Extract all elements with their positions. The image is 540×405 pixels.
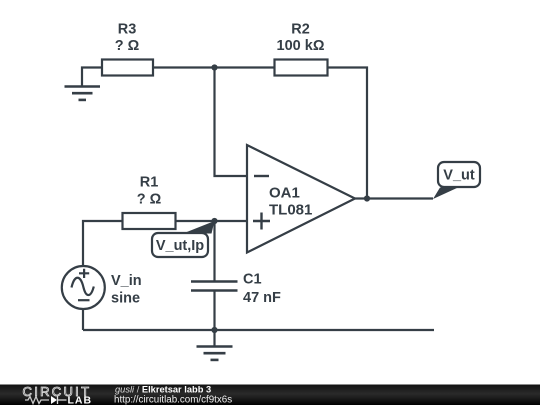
svg-text:? Ω: ? Ω xyxy=(115,38,140,54)
wire R1 right lead to node B xyxy=(176,220,215,222)
wire V_in bottom to bottom net xyxy=(82,309,84,331)
svg-text:V_ut: V_ut xyxy=(443,168,475,184)
footer title text xyxy=(114,384,232,405)
wire node A down to op-amp inverting input xyxy=(215,68,248,177)
svg-text:R2: R2 xyxy=(291,22,310,38)
flag V_ut xyxy=(433,162,480,199)
op-amp U1 OA1 TL081 xyxy=(247,145,355,253)
svg-text:sine: sine xyxy=(111,291,140,307)
svg-text:http://circuitlab.com/cf9tx6s: http://circuitlab.com/cf9tx6s xyxy=(114,394,232,405)
CircuitLab logo xyxy=(23,384,93,405)
svg-text:47 nF: 47 nF xyxy=(243,290,281,306)
svg-text:LAB: LAB xyxy=(68,395,93,405)
svg-text:R3: R3 xyxy=(118,22,137,38)
resistor R2 xyxy=(275,22,328,76)
footer bar xyxy=(0,385,540,405)
svg-text:gusli / Elkretsar labb 3: gusli / Elkretsar labb 3 xyxy=(115,384,211,394)
svg-text:TL081: TL081 xyxy=(269,202,312,219)
wire R3 left lead and stub to ground xyxy=(82,68,102,87)
svg-text:V_in: V_in xyxy=(111,273,142,289)
ground (bottom) xyxy=(197,347,233,360)
wire R1 left lead down to V_in top xyxy=(83,221,123,266)
voltage source V_in (sine) xyxy=(62,266,142,309)
node B junction dot xyxy=(211,218,217,224)
svg-text:R1: R1 xyxy=(140,175,159,191)
output node junction dot xyxy=(364,195,370,201)
wire node C stub to ground xyxy=(213,330,215,346)
ground (top left) xyxy=(65,87,101,100)
flag V_ut,Ip xyxy=(152,221,215,257)
wire R2 right lead down to output node xyxy=(328,68,368,199)
svg-text:100 kΩ: 100 kΩ xyxy=(277,38,325,54)
wire node B down to C1 top plate xyxy=(213,221,215,281)
resistor R3 xyxy=(102,22,153,76)
capacitor C1 xyxy=(191,272,281,307)
svg-text:C1: C1 xyxy=(243,272,262,288)
wire R3 right lead to node A xyxy=(153,66,215,68)
wire bottom net xyxy=(83,329,434,331)
wire C1 bottom plate down to bottom net xyxy=(213,291,215,330)
svg-text:V_ut,Ip: V_ut,Ip xyxy=(156,238,204,254)
wire node B to op-amp non-inverting input xyxy=(215,220,248,222)
svg-text:OA1: OA1 xyxy=(269,185,300,202)
node A junction dot xyxy=(211,64,217,70)
node C junction dot xyxy=(211,327,217,333)
svg-text:? Ω: ? Ω xyxy=(137,192,162,208)
resistor R1 xyxy=(123,175,176,230)
wire op-amp output to V_ut flag xyxy=(355,197,433,199)
wire node A to R2 left lead xyxy=(215,66,275,68)
